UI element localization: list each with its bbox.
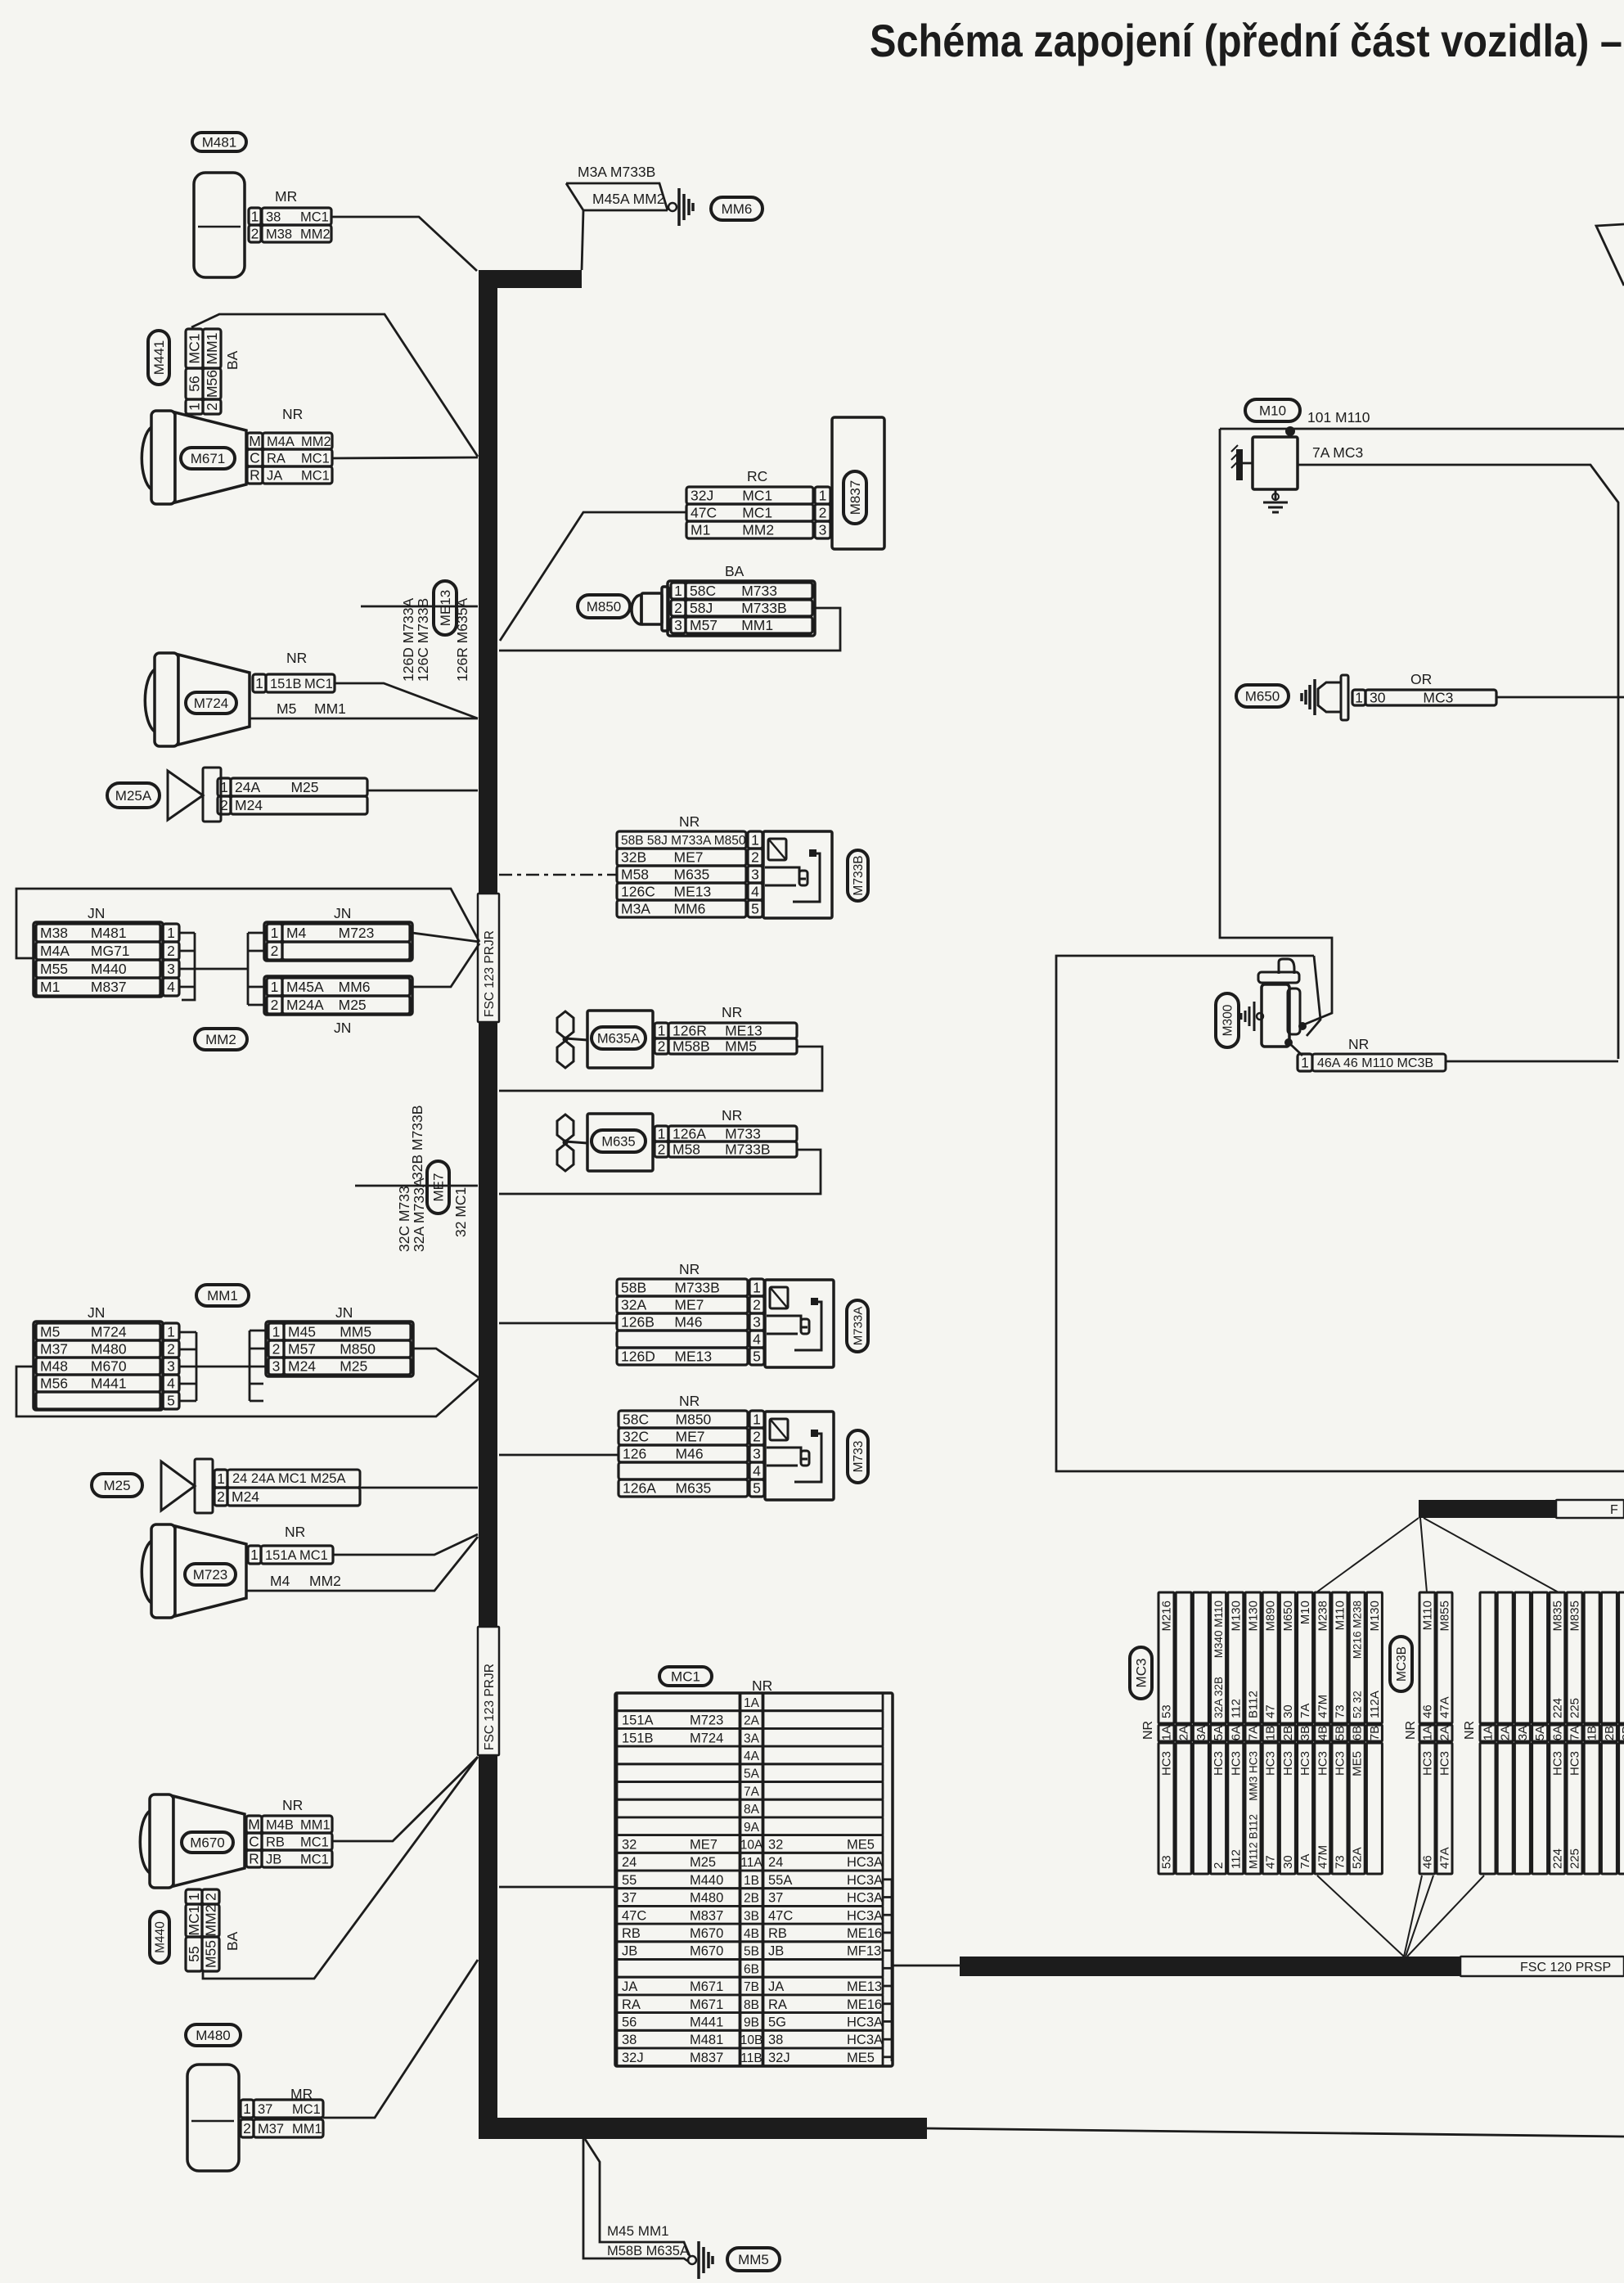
svg-text:M724: M724 [91, 1324, 127, 1340]
node MM6 [711, 197, 763, 220]
svg-text:3B: 3B [744, 1909, 759, 1923]
svg-text:M216: M216 [1160, 1601, 1174, 1632]
svg-text:MC1: MC1 [304, 677, 333, 691]
switch M733B [763, 831, 832, 918]
svg-text:73: 73 [1334, 1855, 1347, 1869]
node ME7 [427, 1161, 449, 1214]
connector M733B pins [617, 831, 746, 849]
svg-text:M440: M440 [91, 961, 127, 977]
node M733B [848, 850, 868, 901]
ground M10 [1275, 489, 1277, 501]
svg-text:M480: M480 [690, 1891, 723, 1906]
svg-text:M635A: M635A [597, 1031, 640, 1046]
node M481 [192, 133, 246, 151]
svg-text:1: 1 [658, 1023, 666, 1039]
svg-text:M440: M440 [690, 1873, 723, 1888]
pin C M670 [246, 1833, 262, 1850]
svg-text:1A: 1A [1160, 1726, 1174, 1740]
svg-text:151B: 151B [622, 1731, 654, 1745]
pin 1 M480 [241, 2100, 254, 2118]
svg-text:M45: M45 [288, 1324, 316, 1340]
svg-text:38: 38 [266, 209, 281, 224]
svg-text:ME7: ME7 [690, 1837, 718, 1852]
svg-text:46: 46 [1421, 1704, 1435, 1718]
svg-text:126A: 126A [673, 1126, 706, 1142]
svg-text:RA: RA [622, 1997, 641, 2012]
node MC3 [1130, 1647, 1152, 1699]
svg-text:32A: 32A [621, 1297, 646, 1313]
svg-text:10B: 10B [740, 2033, 763, 2047]
svg-text:32C: 32C [623, 1429, 649, 1445]
wire JN right bracket [247, 933, 250, 1005]
pin C M671 [247, 449, 263, 466]
svg-text:MM1: MM1 [314, 700, 346, 717]
node M650 [1236, 685, 1289, 707]
svg-text:M45A: M45A [286, 979, 324, 995]
svg-text:M650: M650 [1281, 1601, 1295, 1632]
wire M5 MM1 to bus [250, 718, 478, 720]
connector M480 body [187, 2065, 239, 2171]
svg-text:M890: M890 [1264, 1601, 1278, 1632]
node M10 [1245, 399, 1300, 421]
svg-text:1: 1 [167, 925, 175, 941]
svg-text:M110: M110 [1421, 1601, 1435, 1630]
svg-text:2: 2 [271, 943, 279, 959]
ground MM5 [688, 2256, 696, 2264]
svg-text:1: 1 [658, 1126, 666, 1142]
svg-text:RA: RA [267, 451, 286, 466]
wire JN loop upper [16, 889, 479, 958]
svg-text:M3A: M3A [621, 901, 650, 917]
svg-text:224: 224 [1550, 1848, 1564, 1869]
svg-text:MM5: MM5 [340, 1324, 371, 1340]
svg-text:2: 2 [167, 1341, 175, 1358]
svg-text:M635: M635 [601, 1134, 635, 1149]
svg-text:7A: 7A [1298, 1854, 1312, 1869]
svg-text:MM6: MM6 [722, 201, 753, 217]
svg-text:MM3 HC3: MM3 HC3 [1248, 1751, 1260, 1801]
svg-text:M670: M670 [690, 1944, 723, 1959]
svg-text:126A: 126A [623, 1480, 656, 1497]
svg-text:3: 3 [674, 617, 682, 633]
svg-text:M481: M481 [202, 134, 237, 150]
wire JN link [195, 968, 248, 970]
node MM1 [196, 1285, 249, 1306]
svg-text:1: 1 [674, 583, 682, 599]
svg-text:M238: M238 [1316, 1601, 1329, 1632]
pin 1 M481 [249, 208, 261, 225]
svg-text:2: 2 [658, 1141, 666, 1158]
svg-text:HC3: HC3 [1334, 1751, 1347, 1776]
svg-text:2: 2 [1212, 1862, 1226, 1869]
wire bus to MM5 b [585, 2139, 690, 2256]
wire M635A to bus [499, 1047, 822, 1091]
svg-text:126C M733B: 126C M733B [415, 598, 431, 682]
connector M837 body [832, 417, 884, 549]
svg-text:1: 1 [1355, 690, 1363, 706]
svg-text:38: 38 [622, 2033, 637, 2047]
svg-text:M25: M25 [339, 997, 367, 1013]
svg-text:7B: 7B [1368, 1726, 1382, 1740]
svg-text:47C: 47C [768, 1908, 793, 1923]
svg-text:225: 225 [1568, 1848, 1582, 1869]
svg-text:JB: JB [768, 1944, 784, 1959]
svg-text:MC1: MC1 [742, 488, 772, 504]
svg-text:M441: M441 [91, 1376, 127, 1392]
svg-text:2A: 2A [1438, 1726, 1452, 1740]
svg-text:ME13: ME13 [674, 884, 712, 900]
svg-text:47A: 47A [1438, 1847, 1452, 1869]
relay M10 body [1253, 437, 1298, 489]
svg-text:58C: 58C [623, 1412, 649, 1428]
svg-text:46A 46 M110 MC3B: 46A 46 M110 MC3B [1317, 1056, 1433, 1070]
svg-text:126B: 126B [621, 1314, 655, 1331]
svg-text:M733: M733 [852, 1441, 866, 1473]
svg-text:4: 4 [167, 979, 175, 995]
svg-text:HC3: HC3 [1568, 1751, 1582, 1776]
svg-text:73: 73 [1334, 1704, 1347, 1718]
node M440 [150, 1912, 169, 1963]
svg-text:M340 M110: M340 M110 [1212, 1601, 1225, 1658]
wire bottom continuation [927, 2128, 1624, 2137]
connector MC3 columns [1158, 1592, 1174, 1723]
svg-text:1: 1 [753, 1412, 761, 1428]
svg-text:2B: 2B [1603, 1726, 1617, 1740]
ground M650 [1300, 693, 1303, 701]
ground M300 [1240, 1013, 1243, 1020]
svg-text:MM2: MM2 [300, 227, 331, 241]
svg-text:ME7: ME7 [430, 1173, 446, 1202]
svg-text:C: C [249, 1834, 259, 1850]
svg-text:58B 58J M733A M850: 58B 58J M733A M850 [621, 834, 746, 848]
glow plug M650 [1318, 682, 1341, 712]
svg-text:8A: 8A [744, 1803, 760, 1817]
svg-text:47: 47 [1264, 1704, 1278, 1718]
svg-text:HC3: HC3 [1298, 1751, 1312, 1776]
svg-text:37: 37 [768, 1891, 783, 1906]
connector M481 body [194, 173, 245, 277]
node M733A [847, 1300, 868, 1352]
svg-text:32A M733A: 32A M733A [411, 1178, 427, 1252]
svg-text:MM1: MM1 [292, 2122, 322, 2137]
lamp M724 [145, 669, 155, 732]
label 126D M733A [400, 598, 416, 682]
svg-text:M25A: M25A [115, 788, 152, 804]
svg-text:BA: BA [224, 350, 241, 370]
svg-text:6A: 6A [1550, 1726, 1564, 1740]
svg-text:56: 56 [622, 2015, 637, 2029]
pin 3 M837 [686, 521, 813, 538]
svg-text:32J: 32J [691, 488, 713, 504]
svg-text:HC3: HC3 [1421, 1751, 1435, 1776]
svg-text:3B: 3B [1620, 1726, 1624, 1740]
junction JN right lower table [264, 976, 412, 1015]
svg-text:R: R [250, 467, 260, 484]
svg-text:2A: 2A [1499, 1726, 1513, 1740]
svg-text:1A: 1A [1421, 1726, 1435, 1740]
svg-text:M441: M441 [690, 2015, 723, 2029]
svg-text:M4: M4 [286, 925, 307, 941]
svg-text:30: 30 [1370, 690, 1386, 706]
svg-text:M1: M1 [40, 979, 60, 995]
pin 2 M635 [655, 1141, 668, 1157]
wire MC1 right collector [891, 1879, 893, 2061]
svg-text:5A: 5A [1533, 1726, 1547, 1740]
svg-text:1: 1 [251, 209, 259, 225]
svg-text:M724: M724 [194, 696, 229, 711]
junction dot M300 upper [1298, 1022, 1307, 1030]
svg-text:MC1: MC1 [300, 1852, 329, 1866]
svg-text:32B: 32B [621, 849, 646, 866]
svg-text:2A: 2A [744, 1714, 760, 1728]
svg-text:58J: 58J [690, 600, 713, 616]
svg-text:5B: 5B [744, 1945, 759, 1959]
pin R M671 [247, 466, 263, 484]
svg-text:3: 3 [753, 1314, 761, 1331]
pin 2 M25 [214, 1488, 227, 1506]
svg-text:151B: 151B [270, 677, 302, 691]
svg-text:M300: M300 [1221, 1004, 1235, 1036]
label 126R M635A [454, 598, 470, 682]
svg-text:OR: OR [1410, 671, 1432, 687]
pin 1 M25A [218, 778, 231, 796]
svg-text:2: 2 [819, 505, 827, 521]
svg-text:M: M [248, 1817, 260, 1833]
label 32A M733A [411, 1178, 427, 1252]
svg-text:2: 2 [751, 849, 759, 866]
wire JN2 arrow upper [411, 1349, 479, 1378]
svg-text:M733: M733 [741, 583, 777, 599]
svg-text:M835: M835 [1568, 1601, 1582, 1632]
svg-text:M10: M10 [1259, 403, 1286, 418]
node M300 [1216, 993, 1239, 1047]
svg-text:112A: 112A [1368, 1691, 1382, 1718]
svg-text:M216 M238: M216 M238 [1352, 1601, 1364, 1659]
svg-text:6A: 6A [1229, 1726, 1243, 1740]
svg-text:6B: 6B [744, 1962, 759, 1976]
svg-text:NR: NR [722, 1004, 742, 1020]
svg-text:HC3: HC3 [1229, 1751, 1243, 1776]
svg-text:3A: 3A [744, 1731, 760, 1745]
svg-text:5: 5 [167, 1393, 175, 1409]
wire JN arrow upper [412, 933, 479, 942]
svg-text:M45A MM2: M45A MM2 [592, 191, 665, 207]
svg-text:1: 1 [271, 925, 279, 941]
svg-text:M1: M1 [691, 522, 710, 538]
svg-text:M481: M481 [91, 925, 127, 941]
svg-text:1: 1 [243, 2101, 251, 2117]
svg-text:HC3A: HC3A [847, 1908, 883, 1923]
svg-text:MC3: MC3 [1133, 1659, 1149, 1688]
svg-text:M57: M57 [288, 1341, 316, 1358]
svg-text:M24: M24 [235, 797, 263, 813]
svg-text:ME13: ME13 [725, 1023, 763, 1039]
svg-text:JN: JN [335, 1304, 353, 1321]
wire JN arrow lower [412, 943, 479, 987]
svg-text:1B: 1B [744, 1874, 759, 1888]
svg-text:3: 3 [167, 1358, 175, 1375]
svg-text:M25: M25 [340, 1358, 367, 1375]
svg-text:4B: 4B [1316, 1726, 1329, 1740]
svg-text:3: 3 [272, 1358, 281, 1375]
svg-text:M835: M835 [1550, 1601, 1564, 1632]
svg-text:JN: JN [88, 1304, 105, 1321]
svg-text:M733A: M733A [851, 1307, 865, 1346]
svg-text:47: 47 [1264, 1855, 1278, 1869]
wire bus to M733B [499, 874, 617, 876]
svg-text:126R M635A: 126R M635A [454, 598, 470, 682]
svg-text:112: 112 [1229, 1699, 1243, 1718]
solenoid M300 body [1279, 959, 1294, 974]
svg-text:NR: NR [752, 1677, 772, 1694]
svg-text:MC1: MC1 [186, 1906, 202, 1936]
node FSC 123 PRJR upper label [478, 894, 499, 1022]
node M837 [843, 471, 866, 524]
svg-text:M635: M635 [676, 1480, 712, 1497]
svg-text:1B: 1B [1264, 1726, 1278, 1740]
label NR MC3 [1141, 1721, 1155, 1740]
node MM2 [195, 1029, 247, 1050]
svg-text:32C M733: 32C M733 [396, 1186, 412, 1252]
connector MC1 table [615, 1693, 893, 2066]
wire M671 to bus [332, 457, 478, 458]
pin 1 M837 [686, 487, 813, 504]
svg-text:1: 1 [186, 1893, 202, 1901]
svg-text:M37: M37 [258, 2122, 284, 2137]
junction JN left table [34, 922, 163, 997]
wire M635 to bus [499, 1150, 821, 1194]
wire FSC upper to NR table [1424, 1518, 1559, 1592]
svg-text:M130: M130 [1247, 1601, 1261, 1632]
wire harness bus FSC 123 PRJR [479, 270, 927, 2139]
svg-text:3A: 3A [1194, 1726, 1208, 1740]
svg-text:HC3A: HC3A [847, 2033, 883, 2047]
wire M300 loop [1056, 956, 1624, 1471]
wire FSC upper to MC3B [1420, 1518, 1427, 1592]
svg-text:46: 46 [1421, 1855, 1435, 1869]
svg-text:ME13: ME13 [438, 590, 453, 626]
svg-text:5: 5 [753, 1349, 761, 1365]
lamp M723 [142, 1541, 151, 1603]
svg-text:2: 2 [251, 226, 259, 242]
wire FSC upper to MC3 [1316, 1518, 1419, 1592]
svg-text:1: 1 [272, 1324, 281, 1340]
ground MM6 [668, 203, 677, 211]
svg-text:M4B: M4B [266, 1817, 294, 1832]
svg-text:MC1: MC1 [301, 468, 330, 483]
switch M733A [765, 1280, 834, 1367]
svg-text:1A: 1A [744, 1696, 760, 1710]
svg-text:6B: 6B [1351, 1726, 1365, 1740]
wire ME13 to bus [361, 606, 478, 608]
svg-text:24: 24 [622, 1855, 637, 1870]
svg-text:MC1: MC1 [300, 209, 329, 224]
svg-text:24: 24 [768, 1855, 783, 1870]
label 32 MC1 [452, 1187, 469, 1237]
svg-text:32: 32 [622, 1837, 637, 1852]
svg-text:M855: M855 [1438, 1601, 1452, 1632]
svg-text:RB: RB [768, 1926, 787, 1941]
svg-text:M25: M25 [103, 1478, 130, 1493]
wire 101 M110 [1220, 428, 1624, 430]
svg-text:30: 30 [1281, 1704, 1295, 1718]
pin 1 M635A [655, 1023, 668, 1038]
svg-text:224: 224 [1550, 1698, 1564, 1718]
svg-text:M57: M57 [690, 617, 718, 633]
junction dot M300 lower [1284, 1038, 1293, 1047]
svg-text:M58B: M58B [673, 1038, 710, 1055]
svg-text:MM1: MM1 [207, 1288, 238, 1304]
svg-text:5G: 5G [768, 2015, 786, 2029]
svg-text:MG71: MG71 [91, 943, 130, 959]
svg-text:M671: M671 [191, 451, 226, 466]
svg-text:JA: JA [622, 1979, 637, 1994]
pin 1 M300 [1298, 1054, 1312, 1071]
node ME13 [434, 581, 457, 635]
svg-text:M671: M671 [690, 1997, 723, 2012]
wire harness FSC 120 PRSP upper [1419, 1500, 1556, 1518]
svg-text:11A: 11A [740, 1856, 763, 1870]
pin 1 M25 [214, 1470, 227, 1488]
svg-text:47C: 47C [622, 1908, 646, 1923]
svg-text:NR: NR [722, 1107, 742, 1123]
wire 151B MC1 to bus [335, 683, 478, 718]
wire M300 MC3B [1446, 1060, 1618, 1063]
svg-text:MM2: MM2 [742, 522, 774, 538]
svg-text:2: 2 [271, 997, 279, 1013]
bulb M850 [632, 595, 641, 624]
svg-text:2: 2 [674, 600, 682, 616]
svg-text:JA: JA [768, 1979, 784, 1994]
svg-text:NR: NR [285, 1524, 305, 1540]
svg-text:52A: 52A [1351, 1847, 1365, 1869]
svg-text:32: 32 [768, 1837, 783, 1852]
svg-text:MM1: MM1 [300, 1817, 331, 1832]
svg-text:2: 2 [272, 1341, 281, 1358]
svg-text:NR: NR [1141, 1721, 1155, 1740]
pin 2 M481 [249, 225, 261, 242]
svg-text:M480: M480 [196, 2028, 231, 2043]
svg-text:M733: M733 [725, 1126, 761, 1142]
node M733 [848, 1430, 868, 1483]
svg-text:9A: 9A [744, 1821, 760, 1835]
wire JN2 link [196, 1366, 250, 1368]
svg-text:NR: NR [679, 813, 700, 830]
wire M480 to bus [323, 1960, 478, 2118]
svg-text:37: 37 [258, 2102, 272, 2117]
wire M4 MM2 to bus [245, 1537, 478, 1591]
node MM5 [727, 2248, 780, 2271]
label NR MC3B [1404, 1721, 1418, 1740]
svg-text:M10: M10 [1298, 1601, 1312, 1624]
svg-text:126C: 126C [621, 884, 655, 900]
svg-text:MC1: MC1 [300, 1835, 329, 1849]
wire harness FSC 120 PRSP lower [960, 1957, 1460, 1976]
svg-text:M24A: M24A [286, 997, 324, 1013]
wire 151A MC1 to bus [333, 1534, 478, 1555]
svg-text:HC3A: HC3A [847, 1873, 883, 1888]
svg-text:1A: 1A [1482, 1726, 1496, 1740]
svg-text:M55: M55 [40, 961, 68, 977]
svg-text:FSC 123 PRJR: FSC 123 PRJR [483, 1664, 497, 1750]
svg-text:2: 2 [217, 1488, 225, 1505]
svg-text:M850: M850 [676, 1412, 712, 1428]
svg-text:126: 126 [623, 1446, 646, 1462]
svg-text:HC3A: HC3A [847, 1855, 883, 1870]
pin M M670 [246, 1816, 262, 1833]
svg-text:MC3B: MC3B [1395, 1646, 1409, 1682]
svg-text:1: 1 [819, 488, 827, 504]
